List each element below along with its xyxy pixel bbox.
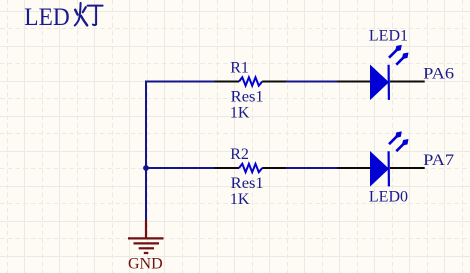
svg-text:LED1: LED1 xyxy=(369,28,408,45)
svg-text:GND: GND xyxy=(128,255,163,272)
svg-text:1K: 1K xyxy=(230,104,250,121)
svg-text:R2: R2 xyxy=(230,146,249,163)
svg-text:PA7: PA7 xyxy=(423,152,454,169)
svg-text:LED: LED xyxy=(24,4,69,31)
svg-text:LED0: LED0 xyxy=(369,188,408,205)
svg-text:Res1: Res1 xyxy=(231,89,264,106)
svg-text:1K: 1K xyxy=(230,191,250,208)
svg-text:R1: R1 xyxy=(230,60,249,77)
svg-text:PA6: PA6 xyxy=(423,65,454,82)
svg-text:Res1: Res1 xyxy=(231,175,264,192)
